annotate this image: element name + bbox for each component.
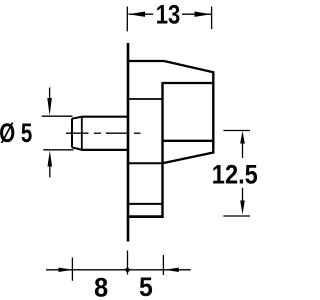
dim 12.5 down arrow <box>240 188 245 215</box>
flange vertical line <box>161 82 163 218</box>
bore bottom line <box>163 140 214 142</box>
body bottom slant <box>163 153 214 164</box>
dim Ø5 top arrow (down) <box>47 88 52 116</box>
svg-text:13: 13 <box>156 0 181 30</box>
body right face <box>212 71 214 153</box>
dim 13 left arrowhead <box>128 12 145 17</box>
dim 12.5 bottom tick <box>223 215 250 217</box>
body horizontal at y163 <box>127 162 163 164</box>
dim 13 line right segment <box>182 13 211 15</box>
bore top line <box>163 82 214 84</box>
bottom dim left arrowhead (points right) <box>59 268 74 272</box>
bottom dim node dot <box>125 268 129 272</box>
dim Ø5 bottom extension line <box>43 149 73 151</box>
dim 13 right extension line <box>211 7 213 30</box>
lower horizontal at y204 <box>127 203 163 205</box>
bottom dim left extension line <box>71 258 73 281</box>
pin chamfer top <box>72 117 82 119</box>
body top edge <box>127 60 164 62</box>
bottom dim right arrowhead (points left) <box>165 268 179 272</box>
dim 12.5 up arrow <box>240 131 245 158</box>
dim 12.5 top tick <box>223 130 250 132</box>
dim Ø5 bottom arrow (up) <box>48 150 53 177</box>
pin top edge <box>82 116 129 118</box>
bottom dim panel extension line below panel <box>127 251 129 275</box>
flange horizontal at y99 <box>127 98 163 100</box>
dim 13 left extension line <box>126 7 128 32</box>
svg-text:12.5: 12.5 <box>212 158 258 189</box>
pin centerline (dash-dot) <box>66 132 141 134</box>
dim 13 line left segment <box>129 13 154 15</box>
pin chamfer edge vertical <box>81 117 83 150</box>
svg-text:Ø 5: Ø 5 <box>0 117 32 148</box>
dim 13 right arrowhead <box>195 12 212 17</box>
svg-text:8: 8 <box>94 271 108 300</box>
bottom dim line <box>46 269 191 271</box>
pin chamfer bottom <box>72 147 82 150</box>
body top slant <box>164 61 213 72</box>
body bottom edge <box>127 215 164 218</box>
pin left face <box>71 119 73 148</box>
bottom dim right extension line <box>162 255 164 275</box>
svg-text:5: 5 <box>139 271 153 300</box>
dim Ø5 top extension line <box>42 115 73 117</box>
pin bottom edge <box>82 149 129 151</box>
panel line (mounting surface vertical) <box>127 43 130 242</box>
